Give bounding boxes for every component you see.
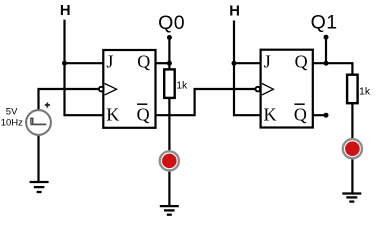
wire Qbar FF1 to clock FF2 — [156, 89, 255, 115]
resistor R1 — [164, 69, 175, 98]
wire H2 vertical + K branch — [234, 21, 261, 116]
svg-text:Q1: Q1 — [311, 11, 338, 33]
terminal node Qbar2 — [324, 113, 329, 118]
svg-text:J: J — [264, 52, 271, 72]
svg-text:Q0: Q0 — [158, 12, 185, 34]
svg-text:Q: Q — [294, 105, 307, 125]
svg-text:K: K — [264, 105, 277, 125]
probe XSC2 red lamp — [345, 141, 360, 156]
svg-text:Q: Q — [295, 52, 308, 72]
U2 clock bubble — [255, 87, 260, 92]
junction node at Q1 — [324, 61, 329, 66]
svg-text:Q: Q — [137, 105, 150, 125]
wire Q1 node vertical — [325, 37, 327, 63]
probe XSC1 red lamp — [162, 154, 177, 169]
wire Q0 node vertical — [168, 38, 170, 70]
svg-text:H: H — [229, 3, 240, 19]
wire H1 vertical + K branch — [65, 20, 104, 116]
wire R2 bottom to probe XSC2 — [351, 103, 353, 138]
U1 clock bubble — [99, 87, 104, 92]
resistor R2 — [347, 75, 358, 104]
wire source V1 to clock FF1 — [39, 89, 99, 111]
wire R1 bottom to probe XSC1 — [168, 98, 170, 150]
JK flip-flop U2 box — [261, 50, 313, 128]
JK flip-flop U1 box — [103, 50, 155, 128]
U1 Qbar overline — [137, 103, 147, 105]
ground below XSC2 — [342, 194, 361, 202]
probe XSC1 ring — [160, 151, 179, 170]
U2 Qbar overline — [294, 103, 304, 105]
svg-text:1k: 1k — [176, 79, 188, 91]
junction node at Q0 — [167, 61, 172, 66]
svg-text:10Hz: 10Hz — [1, 118, 23, 129]
wire probe XSC1 to ground — [168, 172, 170, 206]
svg-text:K: K — [106, 105, 119, 125]
wire Qbar FF2 stub — [313, 114, 326, 116]
wire source V1 to ground — [37, 135, 39, 182]
ground below XSC1 — [160, 206, 179, 215]
U1 clock triangle — [105, 84, 117, 95]
wire J2 branch — [234, 62, 261, 64]
svg-text:Q: Q — [137, 52, 150, 72]
probe XSC2 ring — [343, 139, 362, 158]
ground below V1 — [30, 182, 49, 192]
terminal node Q0 — [167, 35, 172, 40]
wire Q output FF1 — [156, 62, 170, 64]
voltage source V1 circle — [26, 110, 51, 135]
svg-text:5V: 5V — [6, 106, 18, 117]
U2 clock triangle — [262, 84, 274, 95]
wire Q output FF2 to R2 — [313, 63, 353, 74]
V1 pulse symbol — [31, 123, 47, 125]
wire probe XSC2 to ground — [351, 159, 353, 193]
svg-text:J: J — [106, 52, 113, 72]
svg-text:H: H — [60, 3, 71, 19]
junction node at J1 — [62, 61, 67, 66]
terminal node Q1 — [324, 35, 329, 40]
junction node at J2 — [232, 61, 237, 66]
wire J1 branch — [65, 62, 104, 64]
svg-text:1k: 1k — [359, 86, 371, 98]
V1 plus sign — [45, 103, 50, 108]
